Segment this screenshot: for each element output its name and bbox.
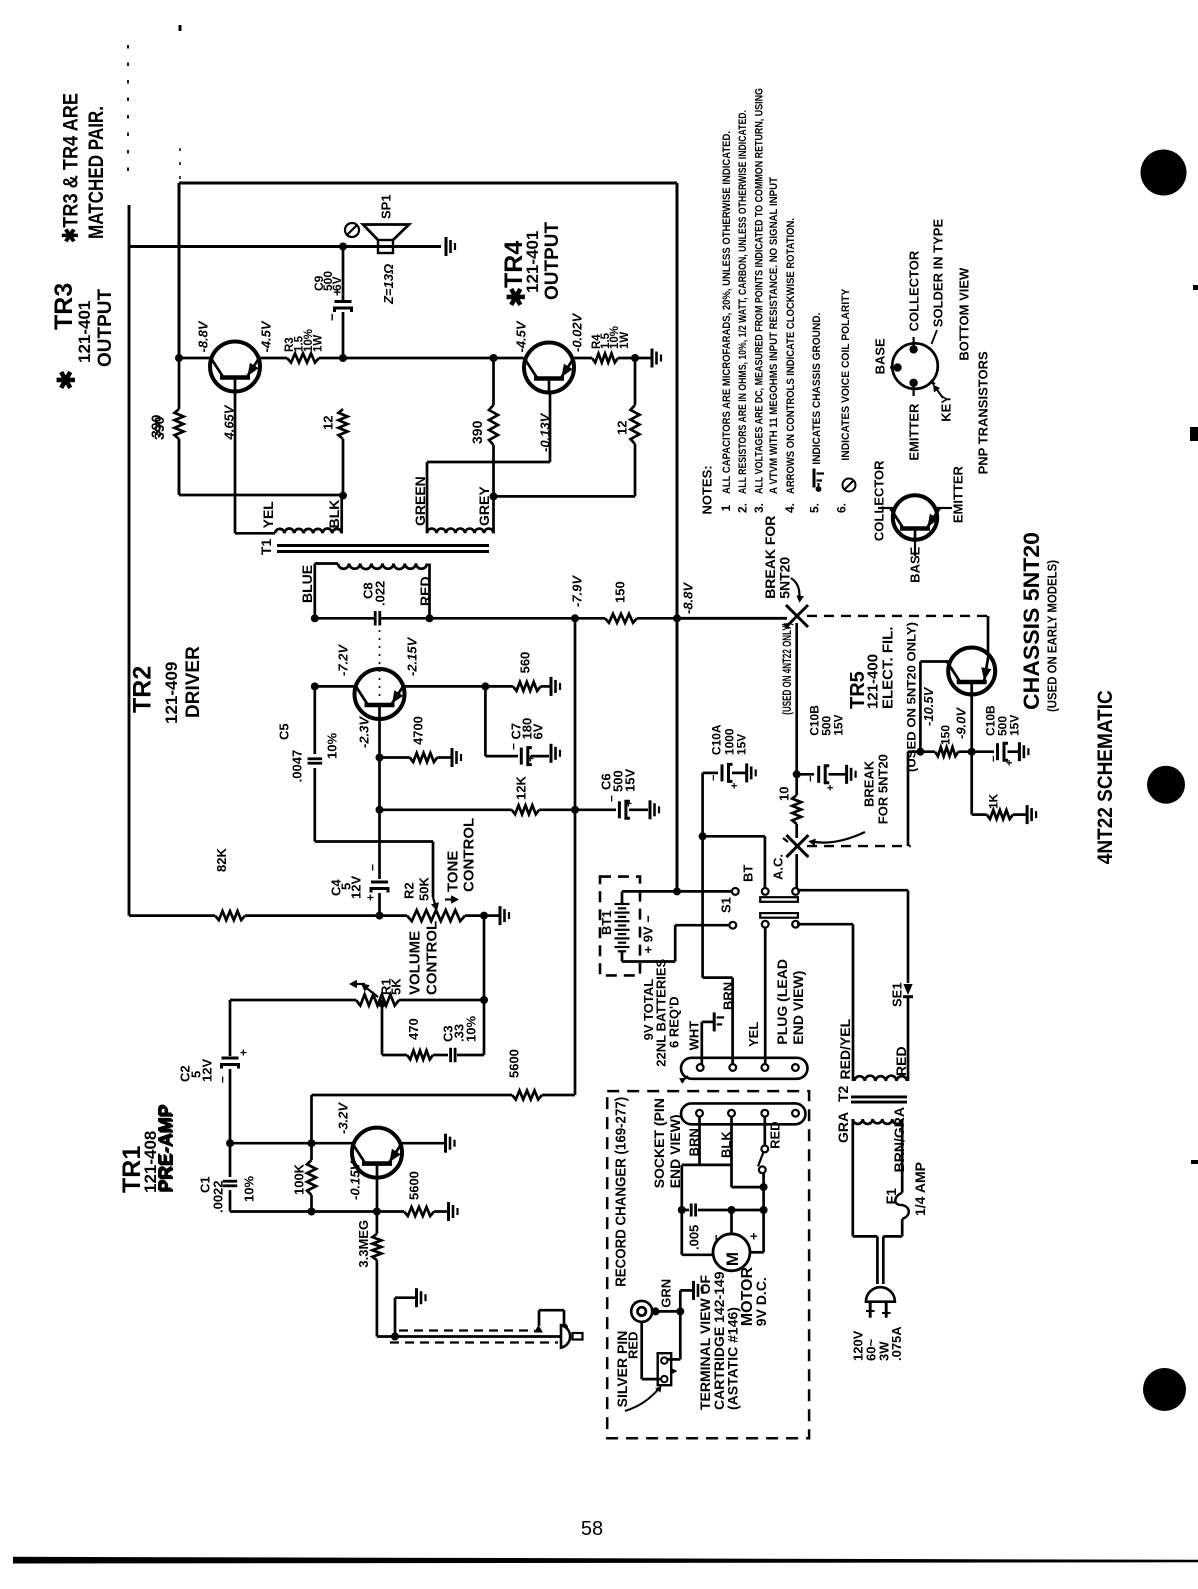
svg-text:GREY: GREY (476, 486, 492, 526)
label COLLECTOR sym (871, 460, 886, 541)
svg-text:END VIEW): END VIEW) (790, 971, 806, 1045)
label TR4 block (500, 222, 563, 308)
label R1 5K (379, 978, 404, 995)
svg-text:-8.8V: -8.8V (681, 582, 696, 614)
wire left rail (128, 205, 131, 916)
label CHASSIS 5NT20 (1019, 532, 1044, 710)
label PLUG LEAD END VIEW (774, 959, 806, 1045)
label C10A polarity (708, 775, 741, 789)
node 390R top (490, 354, 498, 362)
label 9V minus (641, 915, 656, 954)
wire AC to base node (908, 752, 920, 846)
svg-text:R2: R2 (402, 882, 417, 899)
transistor TR2 (355, 669, 405, 719)
label 5600 top (507, 1049, 522, 1078)
motor M (713, 1234, 750, 1271)
label C10A (709, 724, 748, 755)
resistor 12 left (339, 409, 348, 495)
ground C6 (650, 800, 659, 819)
node BLUE-C8 (311, 614, 319, 622)
svg-text:MATCHED PAIR.: MATCHED PAIR. (85, 106, 108, 239)
label 470 (406, 1018, 421, 1040)
switch S1 contact a3 (792, 888, 799, 895)
transformer T2 primary (853, 1119, 902, 1124)
ground phono (417, 1288, 426, 1307)
svg-text:5600: 5600 (407, 1171, 422, 1200)
label 150 TR5 (938, 725, 952, 745)
cartridge body (658, 1353, 678, 1385)
svg-text:A.C.: A.C. (771, 854, 786, 880)
svg-text:9V D.C.: 9V D.C. (753, 1277, 769, 1326)
label BLUE (299, 565, 315, 603)
node 560 tap (481, 682, 489, 690)
svg-text:T1: T1 (258, 538, 274, 555)
wire WHT (702, 1022, 714, 1064)
svg-text:SILVER PIN: SILVER PIN (614, 1331, 630, 1408)
label C7 180 6V (509, 718, 546, 740)
resistor R3 (287, 354, 343, 363)
svg-text:BT: BT (741, 865, 756, 882)
svg-text:150: 150 (938, 725, 952, 745)
label -4.5V TR4 (514, 320, 529, 352)
node C10B tap (793, 770, 801, 778)
plug lead end view (681, 1058, 807, 1079)
arrow break upper (791, 578, 804, 603)
label T2 (835, 1085, 851, 1102)
wire left motor rail (680, 1165, 683, 1255)
wire AC to SE1 (797, 890, 908, 983)
svg-text:+: + (621, 800, 635, 807)
label NOTES heading (700, 465, 715, 514)
node RED join (426, 614, 434, 622)
svg-text:SOCKET (PIN: SOCKET (PIN (651, 1098, 667, 1188)
note 6 symbol (843, 479, 856, 492)
node TR5 collector (968, 748, 976, 756)
label C2 5 12V (178, 1059, 215, 1082)
svg-text:.0022: .0022 (211, 1180, 226, 1213)
pnp symbol leads (878, 508, 952, 556)
label C8 .022 (361, 581, 388, 606)
svg-text:BRN: BRN (721, 982, 736, 1010)
svg-text:BLK: BLK (326, 500, 342, 529)
wire TR5 emitter rail (987, 616, 990, 653)
plug arrow (679, 1076, 688, 1084)
svg-text:−: − (215, 1076, 229, 1083)
label F1 (883, 1188, 899, 1205)
svg-text:1W: 1W (313, 335, 325, 352)
svg-text:FOR 5NT20: FOR 5NT20 (876, 754, 891, 824)
svg-text:−: − (805, 776, 817, 782)
resistor 12K (380, 805, 576, 814)
wire TR3 emitter (260, 357, 287, 360)
svg-text:PRE-AMP: PRE-AMP (155, 1104, 176, 1192)
svg-text:CONTROL: CONTROL (460, 818, 477, 892)
label 4NT22 SCHEMATIC (1094, 690, 1117, 864)
node C6 tap (571, 806, 579, 814)
note 5 (807, 313, 823, 513)
svg-text:12: 12 (615, 421, 630, 435)
label BRN plug (721, 982, 736, 1010)
wire bottom TR1 (230, 1210, 377, 1213)
node shield gnd (391, 1333, 399, 1341)
svg-text:5NT20: 5NT20 (777, 557, 793, 599)
arrow tone wiper (431, 897, 439, 911)
svg-text:-10.5V: -10.5V (921, 686, 936, 726)
capacitor C2 (222, 1058, 239, 1143)
diode SE1 (903, 984, 913, 1081)
wire C8 left (315, 617, 374, 620)
svg-text:15V: 15V (1007, 715, 1021, 736)
note 1 (719, 131, 733, 512)
wire left frame TR3 (178, 183, 181, 358)
label EMITTER bv (907, 403, 922, 461)
svg-text:121-409: 121-409 (162, 662, 181, 724)
wire battery minus (622, 891, 735, 904)
label -0.15V (348, 1160, 363, 1200)
node speaker junction (339, 243, 347, 251)
wire bottom rail right (494, 495, 636, 498)
wire common rail (701, 773, 704, 978)
label BLK (326, 500, 342, 529)
svg-text:+: + (825, 785, 837, 791)
svg-text:6V: 6V (330, 276, 344, 291)
label USED ON EARLY MODELS (1045, 560, 1060, 712)
ground R2 (500, 906, 509, 925)
wire BT (703, 836, 765, 888)
svg-text:560: 560 (518, 652, 533, 674)
label C6 500 15V (599, 769, 638, 792)
dashed AC line upper (807, 615, 988, 617)
plug shield triangle (534, 1325, 543, 1333)
resistor 82K (215, 911, 380, 920)
svg-text:BASE: BASE (908, 546, 923, 582)
capacitor C5 (308, 686, 323, 841)
wire motor bottom (682, 1253, 713, 1256)
ground 1K (1027, 805, 1036, 824)
svg-text:12V: 12V (200, 1059, 215, 1082)
label SILVER PIN (614, 1331, 630, 1408)
svg-text:10%: 10% (242, 1176, 257, 1202)
label -8.8V (196, 320, 211, 352)
phono plug body (561, 1325, 583, 1348)
label 82K (214, 848, 229, 872)
record changer dashed box (607, 1091, 809, 1438)
transformer T1 core (277, 546, 489, 552)
label USED ON 5NT20 ONLY (904, 622, 918, 772)
svg-text:OUTPUT: OUTPUT (95, 289, 116, 368)
label BT (741, 865, 756, 882)
label BASE bv (873, 338, 888, 374)
resistor 150 top (575, 614, 677, 623)
label -7.2V (336, 644, 351, 676)
wire BLUE rail (313, 564, 316, 619)
svg-text:T2: T2 (835, 1085, 851, 1102)
note 3 (752, 88, 780, 513)
node 100K top (308, 1139, 316, 1147)
label EMITTER sym (951, 465, 966, 523)
svg-text:1W: 1W (619, 332, 631, 349)
switch S1 contact a2 (762, 888, 769, 895)
wire R1 left (230, 999, 356, 1002)
wire TR4 emitter (574, 357, 592, 360)
label -8.8V right (681, 582, 696, 614)
svg-text:A VTVM WITH 11 MEGOHMS INPUT R: A VTVM WITH 11 MEGOHMS INPUT RESISTANCE.… (768, 177, 780, 494)
socket pin 4 (792, 1110, 799, 1117)
label RECORD CHANGER (612, 1097, 629, 1287)
svg-text:ELECT. FIL.: ELECT. FIL. (879, 627, 896, 710)
label BOTTOM VIEW (957, 267, 972, 361)
label C5 .0047 (277, 723, 305, 782)
svg-text:-2.15V: -2.15V (405, 636, 420, 676)
label 5600 bottom (407, 1171, 422, 1200)
wire TR2 emitter (405, 685, 486, 688)
label C4 5 12V (329, 876, 364, 899)
wire C2 top (229, 1000, 232, 1056)
resistor 3.3MEG (372, 1212, 381, 1337)
svg-text:12: 12 (321, 416, 336, 430)
svg-text:BOTTOM VIEW: BOTTOM VIEW (957, 267, 972, 361)
label SOCKET PIN END VIEW (651, 1098, 683, 1188)
wire TR2 collector (378, 719, 381, 758)
svg-text:6V: 6V (531, 723, 546, 739)
switch S1 contact b2 (762, 921, 769, 928)
wire T2 primary left (853, 1119, 878, 1236)
transistor TR4 (524, 343, 574, 393)
svg-text:15V: 15V (734, 734, 748, 755)
wire TR1 base lead (376, 1178, 379, 1212)
motor leads (732, 1210, 764, 1252)
resistor R4 (592, 354, 635, 363)
label GRN (659, 1279, 674, 1308)
node R1 wiper (378, 1000, 386, 1008)
svg-text:470: 470 (406, 1018, 421, 1040)
registration dot bottom (1143, 1368, 1186, 1411)
wire BLK (340, 496, 343, 534)
resistor 100K (307, 1143, 316, 1211)
svg-text:10%: 10% (325, 733, 340, 759)
svg-text:5600: 5600 (507, 1049, 522, 1078)
label TR3 block (50, 283, 116, 390)
svg-text:1/4 AMP: 1/4 AMP (912, 1162, 928, 1216)
wire right frame -8.8V rail (676, 183, 679, 891)
resistor 12 right (631, 358, 640, 496)
break X lower (783, 835, 808, 857)
svg-text:-9.0V: -9.0V (954, 707, 969, 739)
label 12K (514, 776, 529, 800)
svg-text:-4.5V: -4.5V (259, 320, 274, 352)
node battery minus rail (673, 887, 681, 895)
transformer T1 secondary (315, 564, 427, 570)
wire TR2 base (315, 685, 355, 688)
label TR2 block (129, 646, 204, 724)
label 3.3MEG (356, 1220, 371, 1268)
node GREY junction (490, 492, 498, 500)
label BRNGRA (891, 1107, 907, 1172)
svg-text:OUTPUT: OUTPUT (542, 222, 563, 301)
svg-text:-7.9V: -7.9V (570, 575, 585, 607)
ground C10B left (847, 765, 856, 784)
node C4 bottom (376, 912, 384, 920)
label C7 polarity (506, 743, 537, 762)
svg-text:12K: 12K (514, 776, 529, 800)
capacitor C4 (371, 882, 388, 916)
fold dotted line (379, 630, 381, 700)
node BLK junction (339, 492, 347, 500)
label GREY (476, 486, 492, 526)
svg-text:TONE: TONE (444, 851, 461, 892)
ground TR4 (652, 349, 661, 368)
wire bottom rail left (179, 439, 343, 495)
plug pin 1 (697, 1064, 704, 1071)
svg-text:F1: F1 (883, 1188, 899, 1205)
capacitor C3 (451, 1048, 484, 1062)
wire R2 gnd (484, 914, 499, 917)
wire 5600 top (312, 1091, 576, 1100)
svg-text:ALL CAPACITORS ARE MICROFARADS: ALL CAPACITORS ARE MICROFARADS, 20%, UNL… (721, 131, 733, 494)
label 1K (986, 793, 1000, 809)
switch blade B (760, 913, 798, 918)
svg-text:RECORD CHANGER (169-277): RECORD CHANGER (169-277) (612, 1097, 629, 1287)
svg-text:390: 390 (469, 420, 485, 444)
resistor 5600 bottom (377, 1207, 447, 1216)
svg-text:TR3: TR3 (50, 283, 78, 330)
ground C7 (551, 744, 560, 763)
svg-text:CONTROL: CONTROL (423, 921, 440, 995)
svg-text:−: − (709, 1234, 724, 1242)
label -10.5V (921, 686, 936, 726)
svg-text:−: − (365, 864, 379, 871)
AC cord (877, 1236, 883, 1284)
resistor 10 (792, 623, 801, 838)
shield dash upper (399, 1329, 535, 1331)
arrow R1 wiper (349, 980, 378, 997)
ground GRN (694, 1281, 703, 1300)
svg-text:BLUE: BLUE (299, 565, 315, 603)
note 4 (783, 218, 797, 513)
svg-text:BRN/GRA: BRN/GRA (891, 1107, 907, 1172)
wire GREY (492, 496, 495, 533)
transistor TR5 (947, 648, 995, 695)
svg-text:✱: ✱ (54, 370, 81, 390)
node plug top (560, 1324, 568, 1332)
resistor 560 (485, 682, 550, 691)
svg-text:YEL: YEL (260, 501, 276, 529)
node -7.9V (571, 614, 579, 622)
socket pin 3 (761, 1110, 768, 1117)
key notch (931, 381, 935, 385)
label TONE CONTROL (444, 818, 477, 892)
svg-text:3.3MEG: 3.3MEG (356, 1220, 371, 1268)
ground 5600 (449, 1202, 458, 1221)
svg-text:(USED ON 5NT20 ONLY): (USED ON 5NT20 ONLY) (904, 622, 918, 772)
registration dot top (1141, 150, 1187, 196)
label BT1 (599, 910, 614, 935)
edge mark right (1190, 427, 1198, 441)
ground 560 (551, 677, 560, 696)
label RED T1 (417, 576, 433, 606)
page number (581, 1518, 603, 1540)
label 100K (292, 1163, 307, 1195)
label COLLECTOR bv (907, 250, 922, 331)
wire 484 rail (483, 916, 486, 1055)
node R4 right (631, 354, 639, 362)
label -0.02V (570, 312, 585, 352)
svg-text:15V: 15V (623, 769, 638, 792)
label C10B left polarity (805, 776, 837, 791)
svg-text:RED/YEL: RED/YEL (837, 1018, 853, 1079)
resistor 470 (382, 1051, 448, 1060)
wire GRN gnd (680, 1290, 692, 1311)
svg-text:121-401: 121-401 (75, 301, 94, 363)
label GRA (835, 1112, 851, 1143)
transformer T2 core (851, 1097, 907, 1102)
svg-text:C5: C5 (277, 723, 292, 740)
pin emitter (909, 379, 917, 396)
svg-text:−: − (604, 795, 618, 802)
label R2 50K (402, 877, 432, 901)
wire BLK pin (730, 1117, 733, 1188)
wire C7 (485, 686, 518, 756)
svg-text:.075A: .075A (889, 1326, 904, 1361)
battery BT1 box (600, 877, 640, 976)
svg-text:4NT22 SCHEMATIC: 4NT22 SCHEMATIC (1094, 690, 1117, 864)
label SE1 (890, 982, 905, 1007)
svg-text:-7.2V: -7.2V (336, 644, 351, 676)
label -7.9V (570, 575, 585, 607)
wire 100K rail top (310, 1095, 313, 1143)
label TR1 block (118, 1104, 178, 1193)
node BT tap (699, 832, 707, 840)
label BRN socket (687, 1128, 702, 1156)
label 10 (777, 787, 792, 801)
svg-text:−: − (988, 756, 1000, 762)
svg-text:YEL: YEL (746, 1022, 761, 1047)
node motor right (760, 1206, 768, 1214)
svg-text:BT1: BT1 (599, 910, 614, 935)
AC plug prongs (866, 1302, 891, 1318)
bottom page-edge rule (13, 1557, 1198, 1564)
silver pin arrow (625, 1386, 661, 1411)
wire YEL (764, 928, 767, 1065)
plug pin 4 (792, 1064, 799, 1071)
svg-text:3.: 3. (752, 503, 766, 513)
svg-text:GREEN: GREEN (412, 476, 428, 526)
svg-text:EMITTER: EMITTER (951, 465, 966, 523)
svg-text:-0.02V: -0.02V (570, 312, 585, 352)
plug pin 3 (762, 1064, 769, 1071)
label T1 (258, 538, 274, 555)
wire BLK to switch line (732, 1186, 764, 1189)
changer switch (758, 1117, 768, 1210)
resistor 4700 (380, 753, 451, 762)
wire top border (179, 182, 677, 185)
svg-text:5K: 5K (389, 978, 404, 995)
fuse F1 (895, 1119, 909, 1236)
capacitor C10B right (972, 743, 1018, 760)
label quarter AMP (912, 1162, 928, 1216)
wire collector to C4 (378, 758, 381, 880)
svg-text:.0047: .0047 (290, 750, 305, 783)
wire speaker rail (129, 245, 441, 248)
transformer T2 secondary (854, 1076, 907, 1081)
label RED socket (768, 1121, 783, 1148)
ground 4700 (452, 748, 461, 767)
resistor 390 right (489, 358, 498, 496)
note 5 ground symbol (814, 469, 824, 492)
svg-text:4700: 4700 (411, 716, 426, 745)
svg-text:✱: ✱ (504, 287, 531, 307)
capacitor C1 (223, 1143, 237, 1211)
